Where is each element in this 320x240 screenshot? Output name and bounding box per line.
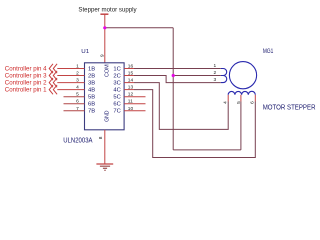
wire GND pin 8: [104, 130, 106, 164]
svg-text:4B: 4B: [88, 87, 96, 93]
svg-text:3C: 3C: [113, 80, 121, 86]
svg-text:1B: 1B: [88, 66, 96, 72]
motor bottom winding coil: [228, 91, 255, 95]
svg-text:U1: U1: [81, 49, 89, 55]
port chevron row 1: [49, 64, 57, 73]
svg-text:6B: 6B: [88, 102, 96, 108]
wire controller to pin 2: [57, 75, 84, 77]
junction dot at supply: [103, 26, 106, 29]
U1 right pin numbers 16-10: [128, 64, 134, 112]
svg-text:5C: 5C: [113, 95, 121, 101]
pin stub 5B: [64, 96, 85, 98]
pin stub 11: [124, 103, 145, 105]
pin stub 10: [124, 110, 145, 112]
wire net 1C to motor pin 1: [134, 68, 221, 70]
pin stub 15: [124, 75, 134, 77]
svg-text:8: 8: [98, 136, 104, 139]
wire net 2C jog: [134, 76, 221, 83]
port chevron row 3: [49, 78, 57, 87]
svg-text:ULN2003A: ULN2003A: [63, 138, 92, 145]
port chevron row 4: [49, 85, 57, 94]
svg-text:7C: 7C: [113, 109, 121, 115]
wire controller to pin 4: [57, 89, 84, 91]
U1 left pin labels 1B-7B: [88, 66, 96, 114]
wire up to bottom coil center tap pin 5: [240, 102, 242, 150]
motor MG1 body circle: [229, 62, 256, 89]
pin stub 16: [124, 68, 134, 70]
svg-text:Controller pin 2: Controller pin 2: [5, 80, 47, 87]
svg-text:4C: 4C: [113, 87, 121, 93]
svg-text:6C: 6C: [113, 102, 121, 108]
svg-text:6: 6: [249, 101, 255, 104]
svg-text:COM: COM: [104, 64, 110, 77]
wire controller to pin 3: [57, 82, 84, 84]
wire to motor pin 2 (common tap): [173, 75, 221, 77]
wire controller to pin 1: [57, 68, 84, 70]
pin stub bottom coil left: [227, 95, 229, 102]
pin stub 6B: [64, 103, 85, 105]
svg-text:4: 4: [223, 101, 229, 104]
U1 right pin labels 1C-7C: [113, 66, 121, 114]
svg-text:3: 3: [214, 77, 217, 83]
junction dot at motor common: [172, 74, 175, 77]
wire net 3C to bottom coil left: [134, 83, 228, 130]
pin stub bottom coil right: [254, 95, 256, 102]
pin stub 13: [124, 89, 134, 91]
svg-text:MG1: MG1: [263, 48, 274, 55]
port chevron row 2: [49, 71, 57, 80]
pin stub 7B: [64, 110, 85, 112]
svg-text:Controller pin 3: Controller pin 3: [5, 73, 47, 80]
wire net 4C to bottom coil right: [134, 90, 255, 158]
svg-text:2B: 2B: [88, 73, 96, 79]
pin stub bottom coil center: [240, 95, 242, 102]
motor left winding coil: [221, 69, 227, 83]
svg-text:1C: 1C: [113, 66, 121, 72]
svg-text:5: 5: [236, 101, 242, 104]
U1 left pin numbers 1-7: [76, 64, 79, 112]
svg-text:MOTOR STEPPER: MOTOR STEPPER: [263, 102, 316, 111]
svg-text:2: 2: [214, 70, 217, 76]
svg-text:3B: 3B: [88, 80, 96, 86]
svg-text:1: 1: [214, 63, 217, 69]
svg-text:5B: 5B: [88, 95, 96, 101]
power supply symbol bar: [100, 13, 108, 15]
wire supply vertical to COM pin 9: [104, 14, 106, 63]
pin stub 14: [124, 82, 134, 84]
svg-text:2C: 2C: [113, 73, 121, 79]
ground symbol: [96, 164, 113, 170]
svg-text:9: 9: [100, 54, 106, 57]
svg-text:7B: 7B: [88, 109, 96, 115]
wire supply right vertical: [172, 28, 174, 150]
IC U1 box: [85, 63, 125, 130]
svg-text:Stepper motor supply: Stepper motor supply: [78, 6, 137, 13]
svg-text:GND: GND: [104, 110, 110, 122]
wire supply bottom rail: [173, 149, 241, 151]
svg-text:Controller pin 1: Controller pin 1: [5, 87, 47, 94]
wire supply horizontal rail: [105, 27, 173, 29]
pin stub 12: [124, 96, 145, 98]
svg-text:Controller pin 4: Controller pin 4: [5, 66, 47, 73]
